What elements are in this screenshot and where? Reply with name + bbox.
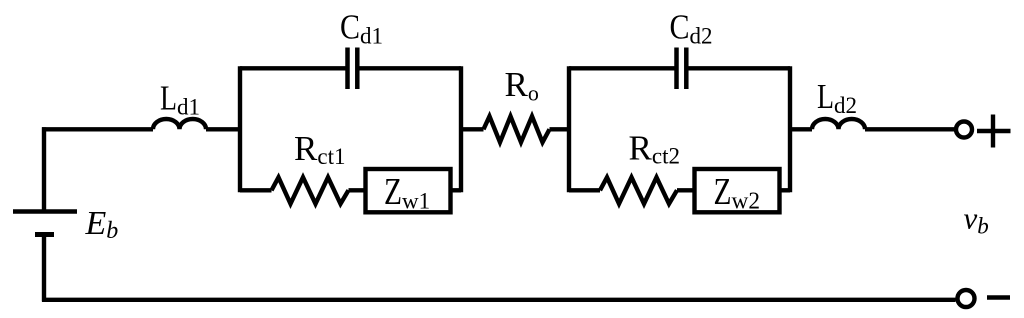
block1 left vertical wire — [238, 66, 242, 192]
wire left vertical top (battery + lead) — [42, 127, 46, 211]
wire block1 to R_o — [459, 127, 484, 131]
battery Eb long plate — [13, 209, 77, 213]
plus sign — [977, 115, 1011, 148]
wire L_d2 to positive terminal — [865, 127, 954, 131]
wire top from battery to L_d1 — [42, 127, 153, 131]
wire block2 to L_d2 — [788, 127, 812, 131]
resistor R_ct2 — [600, 177, 677, 204]
Warburg element Z_w2 box — [695, 169, 780, 212]
minus sign — [987, 295, 1010, 300]
block2 left vertical wire — [567, 66, 571, 192]
Warburg element Z_w1 box — [366, 169, 451, 212]
wire R_ct2 to Z_w2 — [677, 188, 694, 192]
wire R_o to block2 — [550, 127, 572, 131]
wire Z_w2 to block2 right vertical — [780, 188, 791, 192]
capacitor C_d1 right plate — [355, 48, 360, 90]
block1 bottom wire to R_ct1 — [240, 188, 272, 192]
negative terminal node — [958, 290, 975, 307]
capacitor C_d2 left plate — [674, 48, 679, 90]
wire L_d1 to block1 — [206, 127, 242, 131]
block2 bottom wire to R_ct2 — [569, 188, 600, 192]
block1 top wire right segment — [360, 66, 462, 70]
capacitor C_d1 left plate — [345, 48, 350, 90]
resistor R_o — [484, 116, 550, 142]
wire bottom rail — [42, 298, 956, 302]
resistor R_ct1 — [272, 177, 349, 204]
battery Eb short plate — [35, 232, 54, 237]
inductor L_d2 — [812, 119, 865, 129]
block2 top wire left segment — [569, 66, 675, 70]
block2 right vertical wire — [788, 66, 792, 192]
wire left vertical bottom (battery - lead) — [42, 235, 46, 302]
wire Z_w1 to block1 right vertical — [451, 188, 462, 192]
positive terminal node — [956, 122, 972, 138]
block2 top wire right segment — [689, 66, 791, 70]
wire R_ct1 to Z_w1 — [349, 188, 366, 192]
inductor L_d1 — [153, 119, 206, 129]
block1 top wire left segment — [240, 66, 346, 70]
block1 right vertical wire — [459, 66, 463, 192]
capacitor C_d2 right plate — [684, 48, 689, 90]
